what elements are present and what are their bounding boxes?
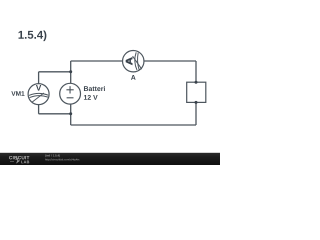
wire right vertical to resistor top (195, 61, 197, 82)
wire battery bottom lead (70, 104, 72, 125)
wire resistor bottom lead (195, 102, 197, 125)
label A (131, 75, 136, 80)
label Batteri 12 V (84, 86, 105, 91)
wire battery vertical to upper rail (70, 61, 72, 83)
label VM1 (11, 91, 24, 95)
title text 1.5.4) (19, 30, 47, 41)
node resistor top terminal (195, 81, 198, 84)
battery V1 (60, 83, 81, 104)
battery minus sign (67, 97, 74, 99)
node junction dot left-top (69, 70, 72, 73)
node junction dot left-bottom (69, 112, 72, 115)
watermark text line 2 (45, 159, 79, 161)
wire VM1 top lead (38, 72, 40, 84)
watermark text line 1 (45, 154, 60, 157)
ammeter letter A (rotated) (126, 57, 132, 65)
voltmeter letter V (36, 85, 41, 91)
ammeter U1 (123, 51, 144, 72)
battery plus sign (66, 86, 73, 98)
watermark logo LAB (21, 161, 29, 164)
wire lower-left rail (39, 113, 71, 115)
node resistor bottom terminal (195, 101, 198, 104)
watermark logo CIRCUIT (9, 156, 29, 159)
wire VM1 bottom lead (38, 105, 40, 114)
wire top-left rail (39, 71, 71, 73)
watermark logo lightning bolt (10, 158, 20, 163)
wire ammeter to right corner (144, 60, 196, 62)
wire upper rail to ammeter (71, 60, 123, 62)
wire bottom rail (71, 124, 196, 126)
watermark footer bar (0, 153, 220, 165)
resistor R1 (box) (187, 82, 206, 102)
voltmeter VM1 (28, 84, 49, 105)
